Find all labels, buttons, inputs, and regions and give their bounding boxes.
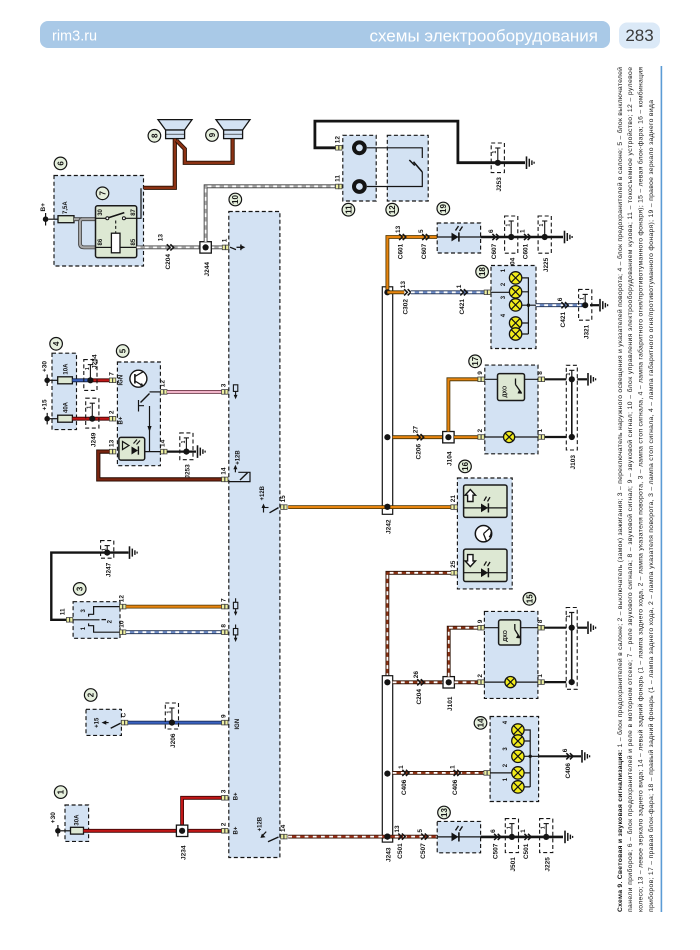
svg-text:J321: J321: [583, 324, 590, 339]
wire J247 to switch 3 pin 11 (black): [51, 553, 128, 620]
svg-text:Схема 9. Световая и звуковая с: Схема 9. Световая и звуковая сигнализаци…: [616, 67, 624, 912]
ground lamp 18: [599, 299, 601, 312]
connector C302 pin 13: [400, 281, 411, 315]
svg-text:13: 13: [394, 825, 401, 833]
svg-text:1: 1: [492, 151, 498, 154]
left rear lamp 14: [474, 717, 538, 802]
instrument cluster 16: [450, 460, 512, 589]
svg-text:5: 5: [417, 829, 424, 833]
svg-text:14: 14: [221, 467, 228, 475]
wire fuse 10A to J254 (blue): [72, 378, 90, 382]
wire pin 12 to block 10 pin 3 (pink): [167, 390, 222, 394]
steering wheel 12 horn switch: [367, 135, 428, 216]
ground switch unit 5: [197, 445, 199, 458]
svg-text:J225: J225: [544, 857, 551, 872]
svg-text:11: 11: [335, 175, 342, 182]
connector C204 pin 26: [413, 671, 424, 705]
svg-text:панели приборов; 6 – блок пред: панели приборов; 6 – блок предохранителе…: [626, 67, 634, 912]
block 10 pin 3 B+: [221, 789, 240, 800]
wire J101 to headlamp 15 pin 9 (dark red dashed): [449, 628, 478, 677]
svg-text:J254: J254: [92, 354, 99, 369]
junction J103: [566, 365, 577, 469]
svg-text:1: 1: [166, 711, 172, 714]
svg-text:C406: C406: [401, 779, 408, 795]
right rear lamp 18: [476, 265, 536, 348]
terminal +30 (fuse 10A): [42, 361, 50, 386]
svg-text:9: 9: [208, 132, 217, 137]
svg-text:14: 14: [280, 824, 287, 832]
svg-text:12: 12: [388, 205, 397, 214]
connector C204 pin 13: [158, 234, 174, 270]
svg-text:B+: B+: [234, 792, 240, 800]
svg-text:C302: C302: [403, 299, 410, 315]
ground lamp 14: [581, 750, 583, 763]
svg-text:1: 1: [566, 373, 572, 376]
wire C302 to lamp 18 (blue dashed): [411, 290, 485, 294]
wire headlamp 17 pin 8 to J103 (black): [545, 378, 567, 380]
wire headlamp 15 pin 1 to junction (black): [544, 681, 566, 683]
ignition switch 2: [84, 689, 127, 736]
svg-text:6: 6: [56, 161, 65, 166]
ground headlamp 17: [587, 373, 589, 386]
junction J253 (switch unit): [180, 433, 193, 479]
horn 8 sound signal: [148, 120, 192, 143]
svg-text:14: 14: [160, 439, 167, 447]
junction J101: [443, 677, 454, 711]
svg-text:6: 6: [562, 748, 569, 752]
svg-text:13: 13: [400, 281, 407, 289]
wire mirror 13 to ground (black): [481, 836, 563, 839]
connector C206 pin 27: [413, 426, 424, 460]
svg-text:ДХО: ДХО: [503, 629, 509, 641]
svg-text:14: 14: [476, 718, 485, 727]
svg-text:1: 1: [541, 826, 547, 829]
junction J249: [86, 398, 99, 447]
svg-text:IGN: IGN: [235, 719, 241, 730]
svg-text:схемы электрооборудования: схемы электрооборудования: [370, 27, 599, 46]
svg-text:7: 7: [108, 372, 115, 376]
svg-text:J242: J242: [385, 519, 392, 534]
svg-text:15: 15: [280, 495, 287, 503]
svg-text:rim3.ru: rim3.ru: [52, 29, 97, 45]
junction block headlamp 15 ground: [566, 608, 577, 690]
svg-text:40A: 40A: [64, 401, 70, 413]
connector C607 pin 6: [488, 229, 499, 259]
svg-text:1: 1: [537, 674, 544, 678]
wire J104 to headlamp 17 pin 2 (orange): [454, 435, 478, 439]
wire lamp 14 to ground (black): [539, 755, 581, 757]
ground J247: [129, 546, 131, 559]
slip ring 11: [342, 135, 376, 216]
svg-text:J501: J501: [510, 857, 517, 872]
svg-text:J206: J206: [170, 733, 177, 748]
junction J234: [176, 825, 187, 860]
block 10 pin 2 B+: [221, 822, 240, 834]
wire J254 to pin 7 (red): [90, 378, 109, 382]
svg-text:27: 27: [413, 426, 420, 434]
block 10 pin 1: [221, 238, 228, 249]
svg-text:13: 13: [108, 439, 115, 447]
svg-text:C507: C507: [420, 843, 427, 859]
block 10 pin 8: [221, 624, 238, 642]
fuse F 10A: [58, 363, 73, 384]
connector C406 pin 1 (first): [398, 765, 409, 795]
harness bus J243: [382, 676, 392, 862]
svg-text:IGN: IGN: [119, 375, 125, 386]
svg-text:C206: C206: [416, 444, 423, 460]
svg-text:3: 3: [76, 586, 85, 591]
mirror 13 turn repeater: [437, 806, 480, 853]
svg-text:C421: C421: [560, 312, 567, 328]
switch unit 5: [108, 345, 167, 466]
connector C601 pin 1: [520, 229, 531, 259]
svg-text:1: 1: [537, 429, 544, 433]
svg-text:C601: C601: [523, 243, 530, 259]
block 10 pin 15 +12V switched output: [260, 485, 287, 512]
svg-text:J103: J103: [570, 455, 577, 470]
wire bus to mirror 19 (orange): [387, 237, 437, 292]
horn 9 sound signal: [206, 120, 250, 142]
junction J225 bottom: [540, 819, 553, 872]
svg-text:J244: J244: [204, 262, 211, 277]
svg-text:85: 85: [131, 238, 137, 245]
fuse F 7.5A: [58, 201, 74, 223]
bus J242 tap node C206: [384, 434, 390, 440]
svg-text:30: 30: [98, 208, 104, 215]
svg-text:10A: 10A: [64, 363, 70, 375]
header bar: [40, 21, 610, 48]
svg-text:86: 86: [98, 238, 104, 245]
svg-text:B+: B+: [40, 203, 47, 212]
svg-text:2: 2: [477, 429, 484, 433]
connector C507 pin 6: [490, 829, 501, 859]
svg-text:приборов; 17 – правая блок-фар: приборов; 17 – правая блок-фара; 18 – пр…: [647, 100, 655, 912]
svg-text:+15: +15: [42, 399, 49, 410]
junction J254: [84, 354, 99, 390]
wire pin 87 to horn feed (thin): [125, 188, 141, 218]
block 10 pin 9 IGN: [221, 714, 241, 730]
svg-text:3: 3: [221, 789, 228, 793]
svg-text:6: 6: [557, 297, 564, 301]
svg-text:5: 5: [418, 229, 425, 233]
connector C607 pin 5: [418, 229, 429, 259]
svg-text:21: 21: [450, 495, 457, 503]
svg-text:колесо; 13 – левое зеркало зад: колесо; 13 – левое зеркало заднего вида;…: [637, 67, 645, 912]
svg-text:13: 13: [158, 234, 165, 242]
svg-text:1: 1: [181, 440, 187, 443]
svg-text:8: 8: [150, 133, 159, 138]
wire horn 8 to relay (dark red): [144, 139, 175, 188]
junction J501: [505, 819, 518, 872]
svg-text:1: 1: [506, 224, 512, 227]
wire horn 9 to horn 8 (dark red): [176, 139, 232, 163]
wire J104 to headlamp 17 pin 9 (orange): [448, 379, 478, 431]
svg-text:12: 12: [335, 136, 342, 144]
wire pin 14 to mirror 13 (dark red dashed): [288, 835, 437, 839]
svg-text:+30: +30: [50, 812, 57, 823]
terminal B+ supply: [40, 203, 48, 226]
svg-text:C406: C406: [452, 779, 459, 795]
svg-text:12: 12: [160, 380, 167, 388]
svg-text:283: 283: [625, 26, 653, 45]
svg-text:30A: 30A: [74, 814, 80, 826]
junction J604: [505, 216, 518, 272]
wire headlamp 15 pin 8 to junction (black): [544, 627, 566, 629]
junction J104: [443, 432, 454, 466]
svg-text:J225: J225: [543, 257, 550, 272]
svg-text:13: 13: [440, 808, 449, 817]
junction J253 top: [491, 143, 504, 192]
connector C421 pin 1: [456, 284, 467, 314]
wire bus to J101 (dark red dashed): [393, 680, 444, 684]
wire bus to C302 (orange): [387, 290, 404, 294]
svg-text:16: 16: [461, 461, 470, 470]
block 10 pin 3: [221, 383, 238, 399]
svg-text:J101: J101: [447, 696, 454, 711]
bus J243 node to J101: [384, 679, 390, 685]
svg-text:5: 5: [119, 348, 128, 353]
svg-text:1: 1: [102, 548, 108, 551]
connector C501 pin 1: [520, 829, 531, 859]
svg-text:1: 1: [580, 297, 586, 300]
wire slip-ring to horn switch loop (black): [315, 121, 525, 163]
mirror 19 turn repeater: [437, 202, 481, 253]
ground headlamp 15: [587, 621, 589, 634]
pin 12 connector: [335, 136, 342, 151]
wire switch 3 pin 10 to block 10 pin 8 (blue dashed): [126, 630, 222, 634]
svg-text:2: 2: [221, 822, 228, 826]
wire relay 85 to J244 (grey dashed): [137, 245, 223, 249]
block U10 body control module: [229, 193, 280, 857]
svg-text:3: 3: [221, 383, 228, 387]
junction J321: [579, 289, 592, 339]
wire fuse to relay pin 30 (grey): [74, 217, 96, 221]
svg-text:1: 1: [539, 224, 545, 227]
fuse block 1: [54, 786, 88, 842]
wire mirror 19 to ground (black): [481, 236, 563, 239]
svg-text:2: 2: [477, 674, 484, 678]
svg-text:1: 1: [57, 789, 66, 794]
left headlamp 15: [477, 593, 545, 699]
wire headlamp 17 pin 1 to J103 (black): [545, 436, 567, 438]
relay K7 horn relay: [96, 187, 137, 258]
wire cluster 16 pin 25 to bus J243 (dark red dashed): [387, 573, 451, 683]
svg-text:1: 1: [520, 229, 527, 233]
junction J206: [165, 703, 178, 748]
svg-text:4: 4: [52, 341, 61, 346]
svg-text:12: 12: [119, 595, 126, 603]
svg-text:1: 1: [506, 826, 512, 829]
svg-text:B+: B+: [234, 826, 240, 834]
bus J242 tap node C302: [384, 289, 390, 295]
svg-text:10: 10: [231, 195, 240, 204]
svg-text:C607: C607: [421, 243, 428, 259]
terminal +15 (fuse 40A): [42, 399, 50, 424]
svg-text:B+: B+: [119, 416, 125, 424]
wire J101 to headlamp 15 pin 2 (dark red dashed): [454, 680, 477, 684]
svg-text:1: 1: [221, 238, 228, 242]
ground after J253: [526, 156, 528, 169]
svg-text:+12В: +12В: [236, 450, 242, 465]
block 6 engine-bay fuse/relay box: [54, 157, 144, 266]
svg-text:C601: C601: [398, 243, 405, 259]
svg-text:19: 19: [439, 204, 448, 213]
wire switch 2 to block 10 pin 9 (blue): [128, 721, 222, 725]
svg-text:J253: J253: [496, 177, 503, 192]
svg-text:9: 9: [221, 714, 228, 718]
light switch 3: [60, 583, 126, 639]
wire fuse 30A to block 10 pin 2 (red): [84, 829, 222, 833]
wire block10 pin 15 to cluster 16 pin 21 (orange): [288, 505, 451, 509]
right headlamp 17: [469, 355, 545, 454]
svg-text:2: 2: [87, 692, 96, 697]
svg-text:+15: +15: [95, 717, 101, 728]
svg-text:1: 1: [85, 367, 91, 370]
block 10 pin 14 +12V output (bottom): [257, 816, 287, 842]
connector C421 pin 6: [557, 297, 568, 327]
svg-text:15: 15: [525, 594, 534, 603]
junction J244: [200, 242, 211, 277]
bus J243 bottom node: [384, 834, 390, 840]
svg-text:17: 17: [471, 356, 480, 365]
wire J234 branch to block 10 pin 3 (red): [182, 798, 222, 831]
svg-text:6: 6: [490, 829, 497, 833]
svg-text:1: 1: [449, 765, 456, 769]
svg-text:C204: C204: [165, 254, 172, 270]
svg-text:J253: J253: [185, 464, 192, 479]
wire bus to J104 (orange): [393, 435, 443, 439]
junction J247: [101, 541, 114, 578]
connector C501 pin 13: [394, 825, 405, 859]
svg-text:C421: C421: [459, 299, 466, 315]
svg-text:J247: J247: [105, 562, 112, 577]
svg-text:C607: C607: [491, 243, 498, 259]
block 10 pin 14 (left): [221, 450, 250, 482]
svg-text:C: C: [121, 713, 128, 718]
svg-text:J234: J234: [180, 845, 187, 860]
svg-text:1: 1: [398, 765, 405, 769]
wire lamp 18 to ground (blue dashed): [536, 303, 585, 307]
svg-text:9: 9: [477, 619, 484, 623]
ground mirror 13: [564, 831, 566, 844]
page number: [619, 23, 660, 49]
svg-text:2: 2: [108, 410, 115, 414]
svg-text:J249: J249: [91, 432, 98, 447]
block 10 pin 7: [221, 598, 238, 616]
connector C507 pin 5: [417, 829, 428, 859]
ground right rear: [564, 231, 566, 244]
svg-text:7: 7: [98, 191, 107, 196]
harness bus J242: [382, 287, 392, 534]
svg-text:C406: C406: [565, 763, 572, 779]
block 4 fuse box: [50, 338, 77, 430]
legend blue rule: [661, 66, 663, 912]
svg-text:8: 8: [537, 619, 544, 623]
wire switch 3 pin 12 to block 10 pin 7 (orange): [126, 605, 222, 609]
connector C406 pin 6: [562, 748, 573, 778]
svg-text:C501: C501: [523, 843, 530, 859]
wire J244 up to slip-ring (grey dashed): [206, 186, 336, 241]
svg-text:C204: C204: [416, 689, 423, 705]
svg-text:9: 9: [477, 371, 484, 375]
svg-text:1: 1: [87, 406, 93, 409]
svg-text:25: 25: [450, 560, 457, 568]
wire fuse 40A to pin 2 (red): [72, 417, 109, 421]
junction J225: [538, 216, 551, 272]
wire pin 13 to block 10 pin 14 (dark red): [98, 452, 221, 480]
svg-text:7: 7: [221, 598, 228, 602]
svg-text:6: 6: [488, 229, 495, 233]
svg-text:18: 18: [478, 267, 487, 276]
wire B+ to fuse: [48, 218, 58, 220]
svg-text:11: 11: [344, 205, 353, 214]
svg-text:8: 8: [221, 624, 228, 628]
svg-text:87: 87: [131, 208, 137, 215]
wire branch to relay pin 86 (grey): [80, 219, 96, 247]
svg-text:C507: C507: [493, 843, 500, 859]
svg-text:+12В: +12В: [260, 485, 266, 500]
connector C406 pin 1 (second): [449, 765, 460, 795]
wire pin 14 to J253 (black): [167, 451, 196, 453]
svg-text:+30: +30: [42, 361, 49, 372]
bus J243 node to lamp 14: [384, 771, 390, 777]
pin 11 connector: [335, 175, 342, 189]
svg-text:J243: J243: [385, 847, 392, 862]
ground symbol inside block 10 pin 1: [230, 244, 245, 250]
svg-text:13: 13: [395, 225, 402, 233]
svg-text:C501: C501: [397, 843, 404, 859]
connector C601 pin 13: [395, 225, 406, 259]
svg-text:10: 10: [119, 620, 126, 628]
svg-text:1: 1: [566, 615, 572, 618]
svg-text:J104: J104: [447, 451, 454, 466]
svg-text:11: 11: [60, 608, 67, 615]
svg-text:26: 26: [413, 671, 420, 679]
svg-text:1: 1: [456, 284, 463, 288]
svg-text:1: 1: [520, 829, 527, 833]
fuse F 40A: [58, 401, 73, 422]
terminal +30 (fuse 30A): [50, 812, 61, 837]
svg-text:ДХО: ДХО: [503, 385, 509, 397]
svg-text:+12В: +12В: [257, 816, 263, 831]
svg-text:8: 8: [537, 371, 544, 375]
wire bus to lamp 14 (dark red dashed): [393, 771, 484, 775]
svg-text:7,5А: 7,5А: [63, 201, 69, 214]
bus J242 tap node pin15 wire: [384, 504, 390, 510]
